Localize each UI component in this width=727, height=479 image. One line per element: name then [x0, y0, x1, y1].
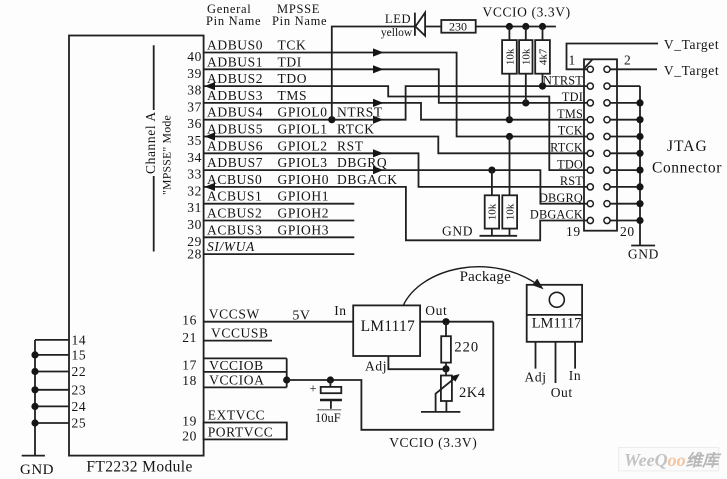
- svg-text:ADBUS6: ADBUS6: [207, 138, 263, 153]
- svg-text:LM1117: LM1117: [361, 318, 415, 335]
- svg-text:15: 15: [72, 348, 87, 363]
- junction dot bus row 4: [636, 116, 643, 123]
- svg-text:40: 40: [187, 49, 202, 64]
- svg-text:Channel A: Channel A: [143, 111, 158, 174]
- svg-text:VCCIOB: VCCIOB: [209, 358, 264, 373]
- svg-text:GND: GND: [442, 224, 473, 239]
- FT2232 pin 32 row label ACBUS0: [187, 172, 397, 199]
- svg-text:28: 28: [187, 247, 202, 262]
- arrow TDI: [373, 65, 384, 73]
- svg-text:PORTVCC: PORTVCC: [208, 425, 274, 440]
- FT2232 module body: [69, 36, 204, 476]
- wire net TDO (connector pin 13 to ADBUS2): [204, 86, 587, 170]
- wire stub pin row 10 to ground bus: [610, 220, 640, 222]
- connector pin circle row 5 right: [604, 133, 610, 139]
- resistor 10k pullup TDI: [519, 27, 533, 103]
- connector pin circle row 4 left: [587, 117, 593, 123]
- svg-text:DBGACK: DBGACK: [337, 172, 398, 187]
- resistor R 230: [441, 20, 475, 34]
- LED D1 diode symbol: [415, 13, 425, 36]
- Channel A bracket line: [153, 45, 155, 251]
- connector pin circle row 2 left: [587, 83, 593, 89]
- junction dot NTRST pullup: [539, 83, 546, 90]
- arrow DBGRQ: [373, 166, 384, 174]
- svg-text:+: +: [310, 382, 317, 396]
- junction dot TCK pulldown: [506, 133, 513, 140]
- wire V_Target pin2: [610, 68, 657, 70]
- svg-text:LED: LED: [385, 12, 411, 26]
- svg-text:39: 39: [187, 66, 202, 81]
- resistor 10k pullup TMS: [502, 27, 517, 120]
- wire net DBGACK (connector pin 19... to ACBUS0): [204, 187, 587, 240]
- svg-text:2K4: 2K4: [459, 385, 486, 401]
- pin 21 VCCUSB row: [182, 326, 272, 346]
- svg-text:DBGACK: DBGACK: [530, 208, 583, 222]
- svg-text:10k: 10k: [504, 203, 516, 220]
- wire V_Target pin1: [567, 44, 659, 70]
- junction dot bus row 10: [636, 217, 643, 224]
- svg-text:19: 19: [566, 224, 581, 239]
- junction dot DBGRQ pulldown: [488, 167, 495, 174]
- wire stub pin row 4 to ground bus: [610, 119, 640, 121]
- svg-text:Package: Package: [460, 269, 512, 285]
- svg-text:24: 24: [72, 399, 87, 414]
- wire left ground bus: [34, 340, 36, 456]
- svg-text:20: 20: [182, 429, 197, 444]
- svg-text:10uF: 10uF: [315, 411, 341, 425]
- wire VCCIOA to regulator loop: [287, 322, 494, 430]
- svg-text:ADBUS7: ADBUS7: [207, 155, 263, 170]
- wire net RTCK (connector pin 11 to ADBUS5): [204, 137, 587, 154]
- wire net NTRST (ADBUS4 to connector pin 3): [204, 86, 587, 120]
- svg-text:TDI: TDI: [278, 54, 302, 69]
- junction dot rail R1: [506, 23, 513, 30]
- svg-text:ADBUS2: ADBUS2: [207, 71, 263, 86]
- svg-text:Adj: Adj: [365, 359, 387, 374]
- pin 19 EXTVCC row: [182, 408, 265, 429]
- wire LM1117 Out: [420, 321, 493, 323]
- svg-text:RTCK: RTCK: [550, 141, 583, 155]
- arrow RST: [373, 149, 384, 157]
- header MPSSE Pin Name: [272, 2, 327, 28]
- svg-text:Out: Out: [425, 303, 447, 318]
- wire stub pin row 8 to ground bus: [610, 186, 640, 188]
- FT2232 pin 34 row label ADBUS6: [187, 138, 363, 165]
- potentiometer R 2K4: [436, 369, 486, 412]
- FT2232 pin 31 row label ACBUS1: [187, 189, 329, 216]
- FT2232 pin 38 row label ADBUS2: [187, 71, 307, 98]
- svg-text:TCK: TCK: [558, 124, 583, 138]
- svg-text:TMS: TMS: [278, 88, 308, 103]
- svg-text:Pin Name: Pin Name: [272, 14, 327, 28]
- svg-text:GND: GND: [20, 462, 54, 478]
- svg-text:RST: RST: [560, 174, 583, 188]
- junction dot pin 22: [31, 368, 38, 375]
- svg-text:ADBUS3: ADBUS3: [207, 88, 263, 103]
- svg-text:yellow: yellow: [381, 27, 413, 39]
- svg-text:30: 30: [187, 217, 202, 232]
- svg-text:34: 34: [187, 150, 202, 165]
- svg-text:33: 33: [187, 167, 202, 182]
- junction dot VCCIOA output: [283, 376, 290, 383]
- svg-text:TDO: TDO: [557, 157, 583, 171]
- svg-text:TDO: TDO: [278, 71, 308, 86]
- svg-text:Adj: Adj: [525, 370, 547, 385]
- svg-text:V_Target: V_Target: [664, 63, 719, 78]
- wire stub pin row 6 to ground bus: [610, 152, 640, 154]
- junction dot Out node: [442, 318, 449, 325]
- svg-text:FT2232 Module: FT2232 Module: [86, 459, 192, 476]
- FT2232 pin 37 row label ADBUS3: [187, 88, 307, 115]
- svg-text:22: 22: [72, 364, 87, 379]
- pin 17 VCCIOB row: [182, 358, 263, 374]
- Package pointer arc: [403, 267, 542, 306]
- svg-text:GND: GND: [628, 247, 659, 262]
- svg-text:31: 31: [187, 200, 202, 215]
- JTAG connector J1 body: [584, 59, 617, 230]
- capacitor C1 10uF: [310, 380, 342, 425]
- wire stub pin row 5 to ground bus: [610, 136, 640, 138]
- wire stub pin row 9 to ground bus: [610, 203, 640, 205]
- wire stub ACBUS1: [204, 203, 355, 205]
- junction dot NTRST to LED: [328, 116, 335, 123]
- pin 16 VCCSW row: [182, 307, 260, 328]
- connector pin circle row 2 right: [604, 83, 610, 89]
- wire LED branch from NTRST: [332, 27, 415, 120]
- FT2232 pin 40 row label ADBUS0: [187, 38, 306, 65]
- connector pin circle row 1 right: [604, 66, 610, 72]
- ground pulldown resistors: [442, 224, 517, 239]
- svg-text:ADBUS5: ADBUS5: [207, 122, 263, 137]
- resistor 4k7 pullup NTRST: [535, 27, 550, 87]
- svg-text:Out: Out: [551, 385, 573, 400]
- wire stub ACBUS3: [204, 236, 355, 238]
- svg-text:VCCUSB: VCCUSB: [211, 326, 269, 341]
- svg-text:21: 21: [182, 330, 197, 345]
- connector pin circle row 7 right: [604, 167, 610, 173]
- svg-text:20: 20: [620, 224, 635, 239]
- connector pin circle row 9 left: [587, 201, 593, 207]
- svg-text:38: 38: [187, 83, 202, 98]
- connector pin circle row 8 left: [587, 184, 593, 190]
- svg-text:5V: 5V: [292, 309, 310, 324]
- wire net RST (ADBUS6 to connector pin 15): [204, 153, 587, 187]
- svg-text:36: 36: [187, 116, 202, 131]
- svg-text:35: 35: [187, 133, 202, 148]
- svg-text:WeeQoo维库: WeeQoo维库: [624, 450, 722, 470]
- wire VCCIO rail: [476, 26, 556, 28]
- arrow NTRST: [373, 116, 384, 124]
- svg-text:JTAG: JTAG: [667, 138, 708, 155]
- svg-text:1: 1: [569, 53, 576, 68]
- svg-text:16: 16: [182, 313, 197, 328]
- junction dot rail R2: [522, 23, 529, 30]
- svg-text:GPIOL2: GPIOL2: [278, 138, 328, 153]
- connector pin circle row 8 right: [604, 184, 610, 190]
- wire stub pin row 2 to ground bus: [610, 85, 640, 87]
- connector pin circle row 5 left: [587, 133, 593, 139]
- connector pin circle row 4 right: [604, 117, 610, 123]
- resistor 10k pulldown TCK: [502, 137, 517, 236]
- pin 20 PORTVCC row: [182, 423, 287, 444]
- connector pin circle row 7 left: [587, 167, 593, 173]
- wire net DBGRQ (ADBUS7 to connector pin 17): [204, 170, 587, 204]
- FT2232 pin 30 row label ACBUS2: [187, 206, 329, 233]
- svg-text:VCCIO (3.3V): VCCIO (3.3V): [483, 5, 571, 20]
- wire stub pin row 7 to ground bus: [610, 169, 640, 171]
- ground symbol bottom left: [20, 456, 54, 478]
- svg-text:2: 2: [624, 53, 631, 68]
- svg-text:10k: 10k: [487, 203, 499, 220]
- svg-text:ACBUS2: ACBUS2: [207, 206, 262, 221]
- regulator U1 LM1117: [353, 305, 420, 356]
- junction dot bus row 9: [636, 200, 643, 207]
- svg-text:ACBUS0: ACBUS0: [207, 172, 262, 187]
- VCCIOB/VCCIOA tie lines: [204, 358, 287, 387]
- svg-text:10k: 10k: [521, 48, 533, 65]
- svg-text:14: 14: [72, 333, 87, 348]
- svg-text:VCCIO (3.3V): VCCIO (3.3V): [389, 435, 477, 450]
- wire stub pin row 3 to ground bus: [610, 102, 640, 104]
- svg-text:GPIOH2: GPIOH2: [278, 206, 330, 221]
- wire net TDI (ADBUS1 to connector pin 5): [204, 69, 587, 103]
- svg-text:25: 25: [72, 416, 87, 431]
- arrow DBGACK into FT: [205, 183, 216, 191]
- connector pin circle row 1 left: [587, 66, 593, 72]
- arrow TCK: [373, 48, 384, 56]
- svg-text:32: 32: [187, 183, 202, 198]
- JTAG Connector label: [652, 138, 722, 177]
- arrow TDO into FT: [205, 82, 216, 90]
- LM1117 package drawing: [527, 285, 582, 383]
- wire stub SI/WUA: [204, 253, 355, 255]
- svg-text:10k: 10k: [504, 48, 516, 65]
- connector pin circle row 3 left: [587, 100, 593, 106]
- svg-text:ADBUS4: ADBUS4: [207, 105, 263, 120]
- svg-text:GPIOL0: GPIOL0: [278, 105, 328, 120]
- svg-text:230: 230: [449, 20, 467, 34]
- junction dot bus row 7: [636, 167, 643, 174]
- svg-text:TDI: TDI: [562, 90, 583, 104]
- svg-text:RST: RST: [337, 138, 364, 153]
- wire LED to R 230: [425, 26, 441, 28]
- svg-text:NTRST: NTRST: [543, 73, 583, 87]
- svg-text:Pin Name: Pin Name: [206, 14, 261, 28]
- wire VCCSW to LM1117 In: [204, 321, 354, 323]
- svg-text:SI/WUA: SI/WUA: [207, 239, 255, 254]
- FT2232 pin 29 row label ACBUS3: [187, 222, 329, 249]
- wire ground bus of connector: [639, 86, 641, 245]
- junction dot bus row 3: [636, 99, 643, 106]
- svg-text:18: 18: [182, 373, 197, 388]
- connector pin circle row 6 left: [587, 150, 593, 156]
- junction dot bus row 6: [636, 150, 643, 157]
- junction dot Adj node: [442, 365, 449, 372]
- svg-text:GPIOH0: GPIOH0: [278, 172, 330, 187]
- junction dot pin 25: [31, 419, 38, 426]
- junction dot cap 10uF: [327, 376, 334, 383]
- svg-text:VCCIOA: VCCIOA: [209, 373, 264, 388]
- FT2232 pin 28 row label SI/WUA: [187, 239, 255, 261]
- svg-text:DBGRQ: DBGRQ: [539, 191, 583, 205]
- resistor 10k pulldown DBGRQ: [485, 170, 499, 236]
- arrow TMS: [373, 99, 384, 107]
- svg-text:TMS: TMS: [557, 107, 583, 121]
- connector pin circle row 10 right: [604, 217, 610, 223]
- svg-text:37: 37: [187, 99, 202, 114]
- junction dot pin 24: [31, 403, 38, 410]
- svg-text:RTCK: RTCK: [337, 122, 375, 137]
- FT2232 pin 39 row label ADBUS1: [187, 54, 302, 81]
- connector pin circle row 10 left: [587, 217, 593, 223]
- svg-text:In: In: [334, 303, 346, 318]
- arrow RTCK into FT: [205, 132, 216, 140]
- connector pin circle row 6 right: [604, 150, 610, 156]
- wire net TCK (ADBUS0 to connector pin 7): [204, 53, 587, 137]
- svg-text:GPIOH3: GPIOH3: [278, 222, 330, 237]
- svg-text:4k7: 4k7: [537, 48, 549, 65]
- svg-text:19: 19: [182, 414, 197, 429]
- svg-text:LM1117: LM1117: [532, 316, 582, 332]
- connector pin circle row 3 right: [604, 100, 610, 106]
- connector pin circle row 9 right: [604, 201, 610, 207]
- junction dot TDI pullup: [522, 99, 529, 106]
- svg-text:Connector: Connector: [652, 160, 722, 177]
- FT2232 pin 36 row label ADBUS4: [187, 105, 383, 132]
- junction dot pin 23: [31, 386, 38, 393]
- junction dot pin 15: [31, 351, 38, 358]
- svg-text:220: 220: [454, 340, 479, 356]
- pin 18 VCCIOA row: [182, 373, 264, 389]
- svg-text:GPIOL3: GPIOL3: [278, 155, 328, 170]
- svg-text:VCCSW: VCCSW: [209, 307, 260, 322]
- FT2232 left ground pins: [35, 333, 86, 431]
- svg-text:ACBUS3: ACBUS3: [207, 222, 262, 237]
- svg-text:GPIOH1: GPIOH1: [278, 189, 330, 204]
- wire stub ACBUS2: [204, 220, 355, 222]
- svg-text:23: 23: [72, 382, 87, 397]
- svg-text:GPIOL1: GPIOL1: [278, 122, 328, 137]
- ground symbol below connector: [628, 246, 659, 262]
- svg-text:"MPSSE" Mode: "MPSSE" Mode: [160, 115, 174, 195]
- svg-text:TCK: TCK: [278, 38, 307, 53]
- svg-text:17: 17: [182, 358, 197, 373]
- junction dot TMS pullup: [506, 116, 513, 123]
- svg-text:V_Target: V_Target: [664, 37, 719, 52]
- junction dot bus row 8: [636, 183, 643, 190]
- header General Pin Name: [206, 2, 261, 28]
- junction dot rail R3: [539, 23, 546, 30]
- svg-text:ADBUS1: ADBUS1: [207, 54, 263, 69]
- svg-text:DBGRQ: DBGRQ: [337, 155, 387, 170]
- wire LM1117 Adj: [388, 356, 446, 369]
- resistor R 220: [441, 322, 479, 369]
- FT2232 pin 35 row label ADBUS5: [187, 122, 374, 149]
- ground symbol below 2K4: [421, 411, 460, 413]
- svg-text:ACBUS1: ACBUS1: [207, 189, 262, 204]
- junction dot bus row 5: [636, 133, 643, 140]
- svg-text:In: In: [569, 368, 581, 383]
- svg-text:ADBUS0: ADBUS0: [207, 38, 263, 53]
- watermark WeeQoo: [619, 448, 722, 471]
- svg-text:EXTVCC: EXTVCC: [208, 408, 266, 423]
- FT2232 pin 33 row label ADBUS7: [187, 155, 387, 182]
- wire net TMS (ADBUS3 to connector pin 9): [204, 103, 587, 120]
